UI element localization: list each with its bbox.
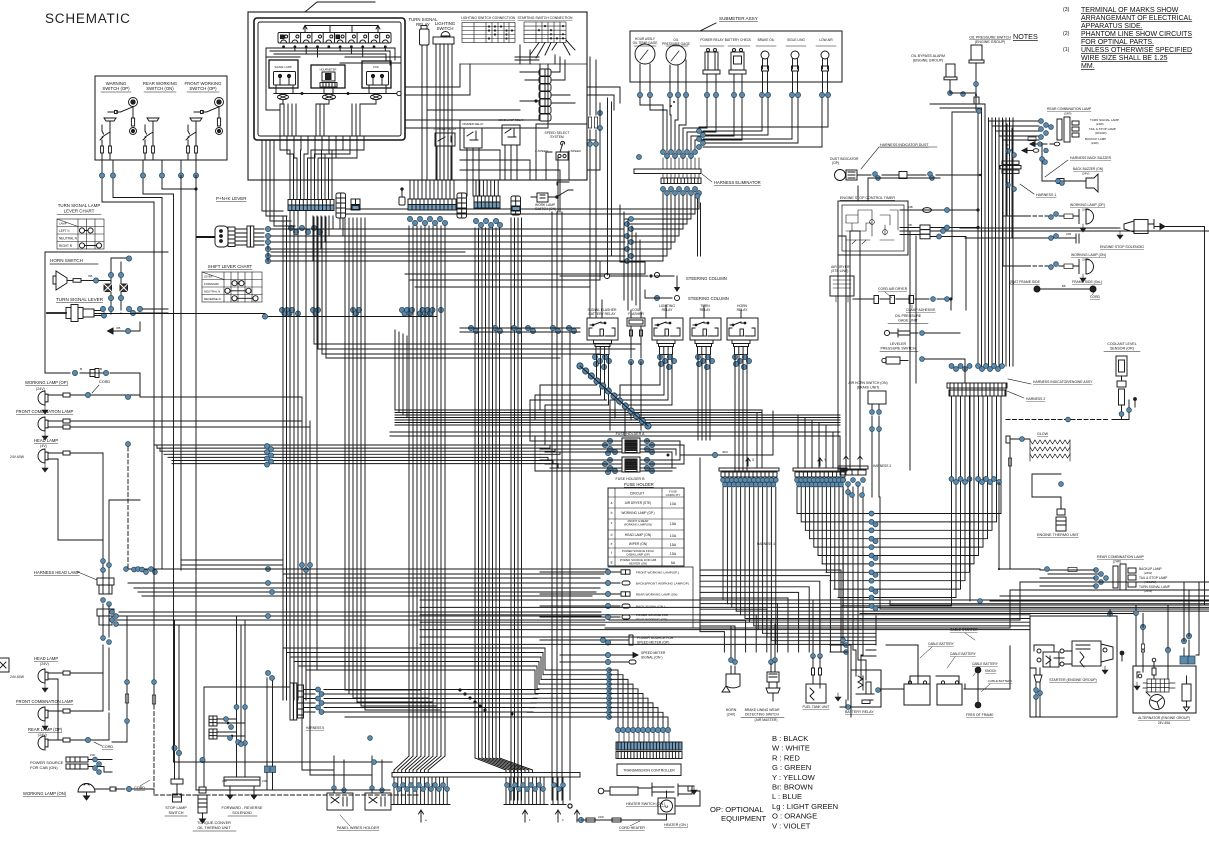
svg-text:STARTER (ENGINE GROUP): STARTER (ENGINE GROUP) bbox=[1049, 678, 1097, 682]
svg-text:(ENGINE GROUP): (ENGINE GROUP) bbox=[913, 59, 943, 63]
svg-text:CAPACITY: CAPACITY bbox=[666, 493, 681, 497]
alternator k ground bbox=[1120, 651, 1125, 661]
left edge partial box bbox=[0, 658, 9, 672]
svg-text:V : VIOLET: V : VIOLET bbox=[772, 821, 811, 830]
timer output row 1 bbox=[900, 208, 979, 213]
svg-text:NOTES: NOTES bbox=[1013, 32, 1038, 41]
steering column arrow bbox=[674, 287, 680, 292]
svg-text:HARNESS 5: HARNESS 5 bbox=[306, 726, 324, 730]
front comb lamp 2 symbol bbox=[38, 707, 48, 721]
fuse A wires bbox=[530, 441, 684, 452]
bar connector wires right bbox=[304, 690, 316, 713]
svg-text:24W: 24W bbox=[598, 815, 604, 819]
turn lever wire right bbox=[121, 309, 168, 313]
comb Y nodes row2 bbox=[797, 482, 802, 487]
front comb lamp wires bbox=[42, 419, 310, 440]
svg-text:15A: 15A bbox=[670, 552, 677, 556]
strip1 lower nodes bbox=[288, 225, 293, 230]
rcm inline resistor bbox=[1028, 137, 1036, 141]
svg-text:B : BLACK: B : BLACK bbox=[772, 734, 808, 743]
hourmeter socket bbox=[323, 94, 336, 100]
svg-text:CORD AIR DRYER: CORD AIR DRYER bbox=[878, 287, 908, 291]
junction node y316 bbox=[262, 314, 267, 319]
lamp feed nodes bbox=[72, 370, 77, 375]
svg-text:M: M bbox=[665, 804, 668, 809]
svg-text:FUSE HOLDER A: FUSE HOLDER A bbox=[616, 432, 645, 436]
harness eliminator bar 1 bbox=[634, 169, 701, 174]
alternator diode bridge bbox=[1143, 679, 1175, 692]
dashed coolant line bbox=[1006, 419, 1109, 421]
comb Y arrow bbox=[818, 458, 822, 466]
pnk lever symbol bbox=[197, 226, 228, 247]
right top horizontals bbox=[860, 497, 1209, 614]
svg-text:SHIFT LEVER CHART: SHIFT LEVER CHART bbox=[208, 264, 253, 269]
harness nodes a bbox=[101, 559, 106, 564]
svg-text:CORD: CORD bbox=[1090, 295, 1101, 299]
svg-text:g: g bbox=[611, 560, 613, 564]
svg-text:SENSOR (OR): SENSOR (OR) bbox=[1110, 347, 1134, 351]
comb X nodes bbox=[721, 478, 726, 483]
turn chart circles bbox=[79, 228, 101, 248]
battery relay nodes bbox=[844, 643, 849, 648]
horn area box left edge bbox=[44, 252, 46, 373]
svg-text:LEVELER: LEVELER bbox=[890, 342, 907, 346]
junction dots eliminator top bbox=[662, 101, 675, 111]
svg-text:CABLE BATTERY: CABLE BATTERY bbox=[972, 662, 999, 666]
signal lamp inner bbox=[274, 72, 296, 94]
svg-text:ENGINE THERMO UNIT: ENGINE THERMO UNIT bbox=[1037, 533, 1080, 537]
svg-text:(4V): (4V) bbox=[40, 444, 47, 448]
fuse output node bbox=[712, 452, 717, 457]
low air indicator bbox=[821, 51, 829, 79]
eliminator ne ladder bbox=[697, 129, 702, 134]
t5 fan-in slants bbox=[475, 758, 533, 773]
relay R2 lighting bbox=[652, 318, 683, 340]
svg-text:EQUIPMENT: EQUIPMENT bbox=[721, 814, 767, 823]
harness nodes b bbox=[101, 598, 106, 603]
arrow node bbox=[125, 328, 130, 333]
head lamp symbol bbox=[38, 449, 48, 463]
leveler underline bbox=[880, 351, 918, 353]
right edge long wire bbox=[1166, 227, 1205, 606]
dashed cord line A bbox=[127, 447, 129, 568]
svg-text:REAR WORKING (OP): REAR WORKING (OP) bbox=[636, 618, 667, 622]
fuse table outer bbox=[608, 488, 684, 566]
starter interior relay bbox=[1034, 645, 1064, 667]
strip2 lower nodes bbox=[407, 216, 412, 221]
diagonal chain connecting lines bbox=[580, 366, 648, 426]
dashboard group outer box bbox=[248, 12, 587, 180]
cord x127 inline connector bbox=[125, 694, 128, 703]
submeter assy box bbox=[630, 31, 842, 82]
relay R1 signal flasher bbox=[587, 318, 618, 340]
cluster long wire and terminal bbox=[274, 91, 401, 95]
svg-text:CABLE BATTERY: CABLE BATTERY bbox=[950, 652, 977, 656]
fr solenoid connector combs bbox=[209, 716, 217, 739]
park switch wires bbox=[302, 583, 382, 793]
strip3 lower nodes bbox=[473, 218, 478, 223]
svg-text:SWITCH (ON): SWITCH (ON) bbox=[146, 86, 174, 91]
fuse B right nodes bbox=[644, 457, 649, 462]
svg-text:b: b bbox=[611, 511, 613, 515]
controller feed nodes bbox=[607, 668, 612, 673]
svg-text:STARTING SWITCH CONNECTION: STARTING SWITCH CONNECTION bbox=[518, 16, 573, 20]
hourmeter sub-box bbox=[311, 65, 345, 88]
svg-text:REAR COMBINATION LAMP: REAR COMBINATION LAMP bbox=[1097, 555, 1144, 559]
dust nodes bbox=[873, 172, 878, 177]
small relay a bbox=[435, 133, 455, 156]
svg-text:(ENGINE GROUP): (ENGINE GROUP) bbox=[975, 40, 1005, 44]
svg-text:Br: BROWN: Br: BROWN bbox=[772, 783, 813, 792]
left mid nodes bbox=[126, 395, 131, 400]
inline connector pair row y327-333 bbox=[468, 325, 576, 333]
svg-text:RELAY: RELAY bbox=[662, 308, 674, 312]
back buzzer symbol bbox=[1042, 143, 1098, 192]
svg-text:RELAY: RELAY bbox=[416, 22, 430, 27]
svg-text:(24V): (24V) bbox=[40, 662, 49, 666]
long connector bar bbox=[392, 773, 580, 778]
starting switch fan lines bbox=[530, 40, 575, 58]
submeter pointer bbox=[700, 23, 716, 31]
right horizontals from K bbox=[798, 483, 1001, 606]
speed select nodes bbox=[598, 111, 603, 116]
relay R2 nodes bbox=[657, 354, 662, 359]
harness eliminator bar 2 bbox=[661, 178, 701, 184]
meter strip top bus bbox=[303, 26, 380, 33]
coolant nodes bbox=[1119, 412, 1124, 417]
trunk T4 main bundle bbox=[409, 226, 445, 756]
svg-text:NEUTRAL N: NEUTRAL N bbox=[59, 237, 78, 241]
engine stop solenoid wire bbox=[960, 227, 1117, 229]
harness 3 comb bbox=[838, 466, 868, 475]
svg-text:SWITCH (OP): SWITCH (OP) bbox=[189, 86, 217, 91]
svg-text:Y : YELLOW: Y : YELLOW bbox=[772, 773, 816, 782]
svg-text:WORKING LAMP (OP.): WORKING LAMP (OP.) bbox=[1070, 203, 1105, 207]
timer top stubs bbox=[858, 178, 940, 201]
svg-text:LOW AIR: LOW AIR bbox=[819, 38, 833, 42]
connector comb Y bbox=[793, 468, 847, 477]
rear comb2 wires bbox=[1040, 570, 1098, 586]
battery 2 box bbox=[937, 684, 962, 705]
rear lamp wires bbox=[48, 710, 109, 742]
svg-text:SIGLE LING: SIGLE LING bbox=[787, 38, 805, 42]
strip1 ladder connector bbox=[336, 193, 346, 218]
comb X drop wires bbox=[723, 487, 776, 644]
svg-text:HARNESS 2: HARNESS 2 bbox=[1026, 397, 1045, 401]
clamp leader bbox=[911, 305, 913, 308]
bottom-left bar connector bbox=[290, 683, 304, 720]
starter feed node bbox=[1108, 612, 1113, 617]
left inner-box drop wires bbox=[262, 140, 295, 226]
left horizontals 612-625 bbox=[112, 612, 605, 625]
bottom bar fan-in slants bbox=[394, 756, 445, 773]
relay area x698 node bbox=[695, 194, 700, 199]
svg-text:OIL THERMO UNIT: OIL THERMO UNIT bbox=[197, 826, 231, 830]
svg-text:TURN SIGNAL LAMP: TURN SIGNAL LAMP bbox=[58, 203, 101, 208]
trunk T6 circle terminal bbox=[568, 330, 572, 808]
switch mechanism 3 bbox=[186, 98, 224, 161]
svg-text:(AIR MASTER): (AIR MASTER) bbox=[755, 718, 778, 722]
bundle K lower bbox=[952, 397, 1002, 483]
left arrow terminal bbox=[108, 322, 141, 334]
air dryer chain bbox=[853, 296, 952, 311]
center horizontals H2b bbox=[390, 432, 840, 436]
svg-text:d: d bbox=[611, 533, 613, 537]
switch mechanism 1 bbox=[100, 98, 138, 161]
instrument cluster inner bbox=[258, 22, 401, 136]
alternator fan bbox=[1146, 692, 1165, 710]
bar group3 up arrow bbox=[556, 810, 561, 822]
air dryer inner bbox=[833, 280, 851, 302]
submeter drop wires bbox=[640, 98, 828, 156]
svg-text:FOR OPTINAL PARTS.: FOR OPTINAL PARTS. bbox=[1081, 39, 1154, 46]
svg-text:(24R): (24R) bbox=[1113, 560, 1121, 564]
signal row POWER SOURCE FOR;REAR WORKING (OP) bbox=[540, 615, 630, 619]
svg-text:4Rd: 4Rd bbox=[722, 450, 728, 454]
relay R4 nodes bbox=[732, 354, 737, 359]
gage unit underline bbox=[888, 323, 928, 325]
steering column node bbox=[654, 295, 659, 300]
signal row BACK&FRONT WORKING LAMP(OP) bbox=[540, 581, 630, 585]
rear comb2 feed node bbox=[1045, 567, 1050, 572]
mid horizontals y274-300 center bbox=[405, 262, 645, 287]
bar group2 ticks bbox=[504, 777, 548, 805]
svg-text:MM.: MM. bbox=[1081, 63, 1095, 70]
svg-text:TRANSMISSION CONTROLLER: TRANSMISSION CONTROLLER bbox=[623, 769, 675, 773]
svg-text:CABLE STARTER: CABLE STARTER bbox=[950, 628, 978, 632]
pnk lever nodes bbox=[265, 226, 270, 231]
signal row BACK SIGNAL (ON ) bbox=[540, 604, 630, 608]
svg-text:UNLESS OTHERWISE SPECIFIED: UNLESS OTHERWISE SPECIFIED bbox=[1081, 47, 1192, 54]
meter/indicator strip in cluster bbox=[278, 33, 391, 44]
cord x127 nodes bbox=[125, 680, 130, 685]
flasher nodes bbox=[628, 359, 633, 364]
horizontals into controller from left bbox=[324, 690, 539, 718]
svg-text:BATTERY CHECK: BATTERY CHECK bbox=[725, 38, 752, 42]
svg-text:SOLENOID: SOLENOID bbox=[232, 811, 252, 815]
center verticals x600-660 upper bbox=[620, 205, 645, 310]
rear lamp symbol bbox=[38, 736, 48, 750]
submeter divider underlines bbox=[634, 45, 836, 47]
speedo node bbox=[605, 652, 610, 657]
bundle K upper bbox=[978, 118, 1013, 366]
dust chain bbox=[857, 172, 980, 179]
engine thermo unit symbol bbox=[1056, 497, 1066, 531]
svg-text:HARNESS 1: HARNESS 1 bbox=[1036, 193, 1056, 197]
svg-text:HARNESS INDICATOR/ENGINE ASSY: HARNESS INDICATOR/ENGINE ASSY bbox=[1033, 380, 1093, 384]
svg-text:10A: 10A bbox=[670, 502, 677, 506]
power relay component bbox=[703, 49, 720, 80]
head lamp 2 symbol bbox=[38, 669, 48, 683]
lighting switch body bbox=[433, 32, 454, 73]
left pair nodes bbox=[637, 155, 642, 160]
coolant sensor symbol bbox=[1116, 356, 1127, 413]
wl on nodes bbox=[1049, 265, 1054, 270]
speedo node2 bbox=[605, 659, 610, 664]
svg-text:COOLANT LEVEL: COOLANT LEVEL bbox=[1107, 342, 1137, 346]
svg-text:SUBMETER ASSY: SUBMETER ASSY bbox=[719, 16, 758, 21]
battery 1 box bbox=[904, 684, 930, 705]
svg-text:DIMMER RELAY: DIMMER RELAY bbox=[462, 122, 483, 126]
signal row REAR WORKING LAMP (ON) bbox=[540, 592, 630, 596]
harness nodes c bbox=[101, 636, 106, 641]
forward reverse solenoid box bbox=[224, 777, 260, 799]
horn vertical nodes top bbox=[126, 256, 131, 261]
svg-text:REAR WORKING LAMP (ON): REAR WORKING LAMP (ON) bbox=[636, 593, 677, 597]
x590 nodes bbox=[588, 142, 593, 147]
power source cab connector bbox=[66, 757, 112, 772]
battery check component bbox=[729, 49, 746, 80]
working lamp op symbol bbox=[38, 391, 48, 405]
svg-text:STOP LAMP: STOP LAMP bbox=[165, 806, 187, 810]
svg-text:(24V): (24V) bbox=[1082, 172, 1089, 176]
controller input nodes bbox=[615, 727, 620, 732]
svg-text:24V-60W: 24V-60W bbox=[10, 455, 25, 459]
air horn switch symbol bbox=[868, 391, 886, 426]
svg-text:OIL TEMP GAGE: OIL TEMP GAGE bbox=[633, 41, 658, 45]
speed select wires bbox=[546, 152, 569, 212]
fuse holder B block bbox=[622, 457, 640, 472]
H1 inline connector nodes bbox=[265, 444, 270, 449]
oil pressure gauge bbox=[666, 45, 686, 65]
alternator group box bbox=[1133, 666, 1196, 713]
center horizontal bends into T4 bbox=[395, 330, 840, 468]
speed meter nodes bbox=[600, 637, 605, 642]
node row y310 e bbox=[417, 311, 422, 316]
svg-text:WORKING LAMP (ON): WORKING LAMP (ON) bbox=[23, 791, 67, 796]
switch mechanism 2 bbox=[143, 118, 159, 160]
svg-text:OB: OB bbox=[908, 223, 912, 227]
bar group3 ticks bbox=[551, 777, 566, 805]
svg-text:FRAME SIDE (OcL): FRAME SIDE (OcL) bbox=[1072, 280, 1102, 284]
fr underline bbox=[228, 815, 257, 817]
flasher component bbox=[627, 318, 645, 358]
svg-text:LAMP: LAMP bbox=[59, 222, 67, 226]
horn node bbox=[93, 278, 98, 283]
center horizontals upper bbox=[314, 316, 640, 358]
horn label underline bbox=[50, 263, 98, 265]
oil pressure junction bbox=[975, 94, 977, 96]
fr connector nodes bbox=[224, 717, 229, 722]
harness1 leader bbox=[1020, 184, 1034, 194]
cord line x127 lower bbox=[112, 616, 127, 742]
svg-text:FUSE HOLDER: FUSE HOLDER bbox=[624, 482, 654, 487]
cord air dryer leader bbox=[885, 292, 892, 298]
svg-text:X: X bbox=[752, 458, 755, 462]
rear comb mid nodes bbox=[1039, 119, 1044, 124]
svg-text:LEVER CHART: LEVER CHART bbox=[64, 209, 95, 214]
alternator inline fuse b bbox=[1141, 650, 1144, 652]
svg-text:FRES OF FRAME: FRES OF FRAME bbox=[966, 713, 994, 717]
svg-text:(24V): (24V) bbox=[36, 387, 45, 391]
svg-text:(24R): (24R) bbox=[1064, 112, 1072, 116]
relay R4 pedestal bbox=[732, 340, 750, 355]
svg-text:(40/10W): (40/10W) bbox=[1095, 131, 1107, 135]
shift chart circles bbox=[225, 281, 258, 301]
left pair verticals to steering bbox=[608, 98, 612, 275]
dashboard lower area wires bbox=[460, 120, 560, 212]
harness head lamp connector 2 bbox=[97, 604, 114, 637]
engine thermo node bbox=[1059, 482, 1064, 487]
svg-text:FORWARD - REVERSE: FORWARD - REVERSE bbox=[222, 806, 263, 810]
svg-text:(24W): (24W) bbox=[1144, 571, 1152, 575]
svg-text:SCHEMATIC: SCHEMATIC bbox=[45, 11, 131, 26]
main connector strip 2 lower bbox=[408, 205, 456, 211]
svg-text:24B: 24B bbox=[908, 205, 913, 209]
harness1 stack bbox=[1000, 150, 1021, 184]
svg-text:STEERING COLUMN: STEERING COLUMN bbox=[686, 276, 727, 281]
speed select dot wires bbox=[599, 103, 601, 150]
harness 3 drop wires bbox=[843, 487, 863, 700]
svg-text:24R: 24R bbox=[262, 779, 267, 783]
signal rows enclosure bbox=[608, 567, 693, 628]
bundle K lower nodes bbox=[949, 477, 954, 482]
turn lever nodes bbox=[100, 306, 105, 311]
horn nodes bbox=[729, 658, 734, 663]
comb Y nodes bbox=[795, 478, 800, 483]
controller connector bar 2 bbox=[616, 752, 682, 759]
horizontal bundle y252-258 left bbox=[271, 252, 475, 261]
relay R3 turn bbox=[690, 318, 721, 340]
svg-text:HARNESS 3: HARNESS 3 bbox=[873, 464, 891, 468]
svg-text:REAR COMBINATION LAMP: REAR COMBINATION LAMP bbox=[1047, 107, 1092, 111]
cable starter leader bbox=[965, 633, 975, 640]
svg-text:OIL BYPASS ALARM: OIL BYPASS ALARM bbox=[911, 54, 945, 58]
small relay c bbox=[502, 125, 520, 155]
bar group2 nodes bbox=[505, 783, 510, 788]
alternator feed wires bbox=[1136, 616, 1189, 679]
svg-text:HEATER SWITCH (ON ): HEATER SWITCH (ON ) bbox=[626, 802, 665, 806]
svg-text:FRONT WORKING LAMP(OP.): FRONT WORKING LAMP(OP.) bbox=[636, 571, 679, 575]
svg-text:FUEL TANK UNIT: FUEL TANK UNIT bbox=[802, 705, 829, 709]
long bottom horizontals bbox=[174, 762, 393, 790]
svg-text:GLOW: GLOW bbox=[1037, 432, 1049, 436]
row y330 horizontals bbox=[460, 328, 580, 332]
fr solenoid wires bbox=[237, 616, 246, 777]
back buzzer leader bbox=[1045, 160, 1068, 177]
svg-text:CABLE BATTERY: CABLE BATTERY bbox=[988, 679, 1012, 683]
dashboard ladder stack right bbox=[539, 69, 551, 121]
fuel tank unit symbol bbox=[806, 658, 826, 703]
rcm arrow nodes bbox=[1038, 142, 1043, 147]
svg-text:(3): (3) bbox=[1063, 7, 1070, 13]
fuel level gauge bbox=[635, 44, 655, 64]
starter bottom nodes bbox=[1034, 688, 1039, 693]
node row y310 a bbox=[279, 307, 284, 312]
working on node bbox=[126, 786, 131, 791]
svg-text:WIPER (ON): WIPER (ON) bbox=[629, 542, 647, 546]
svg-text:P+N+K LEVER: P+N+K LEVER bbox=[216, 196, 247, 201]
svg-text:SPEED METER: SPEED METER bbox=[641, 651, 666, 655]
bar connector nodes bbox=[316, 687, 321, 692]
vertical drops from timer rows at right bbox=[838, 231, 916, 470]
svg-text:SIGNAL (ON ): SIGNAL (ON ) bbox=[641, 656, 663, 660]
eliminator mid stubs bbox=[663, 158, 699, 178]
svg-text:SWITCH: SWITCH bbox=[169, 811, 184, 815]
center horizontals H2x bbox=[395, 415, 840, 425]
front combination lamp symbol bbox=[38, 417, 48, 431]
brake nodes bbox=[769, 660, 774, 665]
eliminator lower nodes bbox=[661, 187, 666, 192]
working lamp node bbox=[85, 392, 90, 397]
row 24R nodes bbox=[1049, 236, 1054, 241]
svg-text:STEERING COLUMN: STEERING COLUMN bbox=[688, 296, 729, 301]
connector strip 3 upper bbox=[474, 196, 500, 202]
eliminator drop wires bbox=[346, 192, 699, 261]
bar group3 nodes bbox=[552, 783, 557, 788]
inline fuse x590 bbox=[588, 117, 591, 128]
fuse A left nodes bbox=[607, 438, 612, 443]
